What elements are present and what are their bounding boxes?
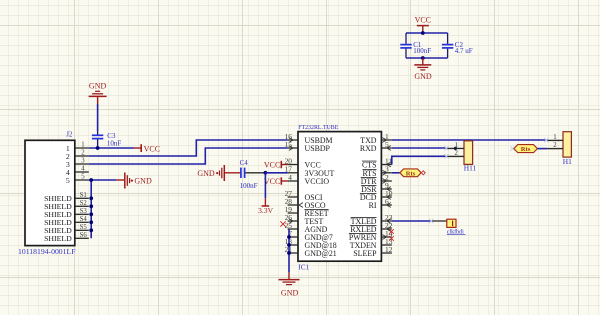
svg-text:GND@21: GND@21: [305, 249, 337, 258]
svg-text:VCC: VCC: [415, 16, 431, 25]
port Rts (at IC1): [400, 169, 425, 178]
svg-text:2: 2: [81, 150, 85, 157]
IC1 pin 18 GND@18: [285, 237, 337, 250]
svg-text:S5: S5: [80, 224, 88, 231]
IC1 pin 2 DTR: [361, 173, 392, 186]
ground GND (top right): [414, 58, 432, 81]
power port 3.3V: [258, 198, 273, 215]
svg-text:2: 2: [553, 142, 557, 149]
IC1 pin 19 RESET: [285, 205, 329, 218]
svg-text:100nF: 100nF: [413, 47, 431, 55]
wire IC1 ground bus AGND/GND pins: [288, 229, 290, 272]
connection marker RXD-H11: [444, 146, 449, 151]
connector J2 body: [25, 140, 75, 245]
node H11 pin1: [454, 147, 457, 150]
node top rail: [421, 31, 425, 35]
node shield pin5: [89, 178, 93, 182]
svg-text:H11: H11: [464, 163, 477, 172]
node GND@21: [287, 251, 291, 255]
wire RTS to port: [392, 172, 400, 174]
svg-text:10nF: 10nF: [107, 139, 122, 147]
IC1 pin 27 OSCI: [285, 189, 323, 202]
svg-text:5: 5: [66, 176, 70, 185]
ERC marker near TEST/AGND: [280, 221, 285, 226]
node shield S2: [89, 204, 93, 208]
svg-text:RI: RI: [369, 201, 377, 210]
IC1 pin 13 TXDEN: [350, 237, 393, 250]
IC1 pin 16 USBDM: [285, 132, 333, 145]
J2 pin 1: [66, 142, 89, 153]
J2 pin 4: [66, 166, 89, 177]
header H11 body: [464, 141, 473, 165]
J2 pin 3: [66, 158, 89, 169]
wire top rail C1-C2: [406, 32, 448, 34]
J2 shield pin S4: [44, 216, 89, 227]
svg-text:4: 4: [81, 166, 85, 173]
IC1 pin 14 PWREN: [349, 229, 393, 242]
node C3 junction: [96, 146, 100, 150]
IC1 pin 17 3V3OUT: [285, 165, 335, 178]
svg-text:GND: GND: [197, 169, 215, 178]
wire J2 pin1 to VCC: [89, 147, 134, 149]
wire J2 pin3 to USBDP: [89, 148, 288, 164]
IC1 pin 4 VCCIO: [288, 173, 330, 186]
svg-text:2: 2: [454, 150, 458, 157]
IC1 pin 22 RXLED: [350, 221, 393, 234]
IC1 pin 23 TXLED: [351, 213, 393, 226]
svg-text:1: 1: [81, 142, 84, 149]
svg-text:GND: GND: [134, 177, 152, 186]
capacitor C1: [400, 33, 411, 58]
svg-text:15: 15: [285, 140, 293, 149]
H1 pin 1: [547, 134, 563, 141]
svg-text:1: 1: [553, 134, 556, 141]
svg-text:3.3V: 3.3V: [258, 206, 273, 215]
IC1 pin 10 DCD: [360, 189, 393, 202]
IC IC1 FT232RL body: [298, 132, 381, 262]
clkfbdi net label: [447, 228, 466, 235]
IC1 pin 21 GND@21: [285, 245, 337, 258]
svg-text:USBDP: USBDP: [305, 144, 331, 153]
svg-text:4: 4: [288, 173, 292, 182]
IC1 pin 5 RXD: [360, 140, 392, 153]
svg-text:S3: S3: [80, 208, 88, 215]
connection marker TXD-H1: [544, 138, 549, 143]
wire port to H1 pin2: [537, 148, 547, 150]
wire shield bus: [90, 180, 92, 238]
svg-text:S6: S6: [80, 232, 88, 239]
wire bottom rail C1-C2: [406, 57, 448, 59]
wire C4 to 3V3OUT pin: [265, 172, 287, 174]
power port VCC (IC1 pin4 VCCIO): [264, 177, 288, 186]
svg-text:100nF: 100nF: [240, 182, 258, 190]
test point clkfbdi: [431, 219, 456, 227]
wire 3V3OUT down to 3.3V port: [264, 173, 266, 198]
svg-text:4.7 uF: 4.7 uF: [455, 47, 473, 55]
capacitor C3: [92, 131, 103, 148]
svg-text:Rts: Rts: [521, 146, 531, 153]
node shield S1: [89, 196, 93, 200]
wire J2 pin5 to GND: [89, 179, 116, 181]
node GND@7: [287, 235, 291, 239]
svg-text:S2: S2: [80, 200, 88, 207]
svg-text:J2: J2: [66, 132, 73, 139]
svg-text:12: 12: [385, 245, 393, 254]
H11 pin 1: [446, 142, 464, 149]
svg-text:IC1: IC1: [299, 263, 310, 271]
H11 pin 2: [446, 150, 464, 157]
J2 shield pin S6: [44, 232, 89, 243]
wire CTS to H11 pin2: [392, 156, 447, 164]
node shield S5: [89, 228, 93, 232]
IC1 pin 12 SLEEP: [353, 245, 392, 258]
svg-text:GND: GND: [281, 289, 299, 298]
capacitor C2: [442, 33, 453, 58]
IC1 pin 7 GND@7: [288, 229, 333, 242]
node bottom rail: [421, 56, 425, 60]
wire RXD to H11 pin1: [392, 147, 447, 149]
J2 shield pin S5: [44, 224, 89, 235]
svg-text:VCC: VCC: [264, 177, 280, 186]
power port VCC (top right): [415, 16, 431, 33]
IC1 pin 20 VCC: [285, 156, 321, 169]
IC1 pin 11 CTS: [362, 156, 392, 169]
J2 shield pin S2: [44, 200, 89, 211]
node shield S3: [89, 212, 93, 216]
svg-text:VCC: VCC: [264, 161, 280, 170]
node 3V3OUT junction: [264, 171, 268, 175]
svg-text:S4: S4: [80, 216, 88, 223]
J2 shield pin S3: [44, 208, 89, 219]
connection marker CTS-H11: [444, 154, 449, 159]
IC1 pin 25 AGND: [285, 221, 328, 234]
wire GND to C3: [97, 104, 99, 131]
svg-text:3: 3: [81, 158, 85, 165]
svg-text:VCCIO: VCCIO: [305, 177, 330, 186]
svg-text:Rts: Rts: [406, 170, 416, 177]
node shield S4: [89, 220, 93, 224]
svg-text:C4: C4: [240, 159, 249, 167]
J2 pin 5: [66, 174, 89, 185]
svg-text:FT232RL.TUBE: FT232RL.TUBE: [298, 124, 338, 131]
svg-text:10118194-0001LF: 10118194-0001LF: [18, 247, 76, 256]
header H1 body: [563, 132, 571, 157]
power port GND (J2 pin5): [116, 173, 152, 189]
J2 pin 2: [66, 150, 89, 161]
wire J2 pin2 to USBDM: [89, 140, 288, 156]
wire TXD to H1 pin1: [392, 139, 548, 141]
H1 pin 2: [547, 142, 563, 149]
IC1 pin 15 USBDP: [285, 140, 331, 153]
ground GND (above C3, inverted): [89, 81, 107, 104]
IC1 pin 1 TXD: [360, 132, 392, 145]
power port VCC (J2 pin1): [134, 144, 160, 153]
svg-text:VCC: VCC: [144, 144, 160, 153]
IC1 pin 26 TEST: [285, 213, 324, 226]
wire TXLED to clkfbdi: [392, 220, 431, 222]
svg-text:S1: S1: [80, 192, 87, 199]
power port GND (C4): [197, 165, 240, 181]
IC1 pin 9 DSR: [361, 181, 392, 194]
svg-text:GND: GND: [89, 81, 107, 90]
IC1 pin 6 RI: [369, 197, 392, 210]
ERC marker near PWREN: [389, 236, 394, 241]
svg-text:GND: GND: [414, 72, 432, 81]
svg-text:5: 5: [81, 174, 85, 181]
connection marker TXLED wire: [429, 219, 433, 223]
svg-text:RXD: RXD: [360, 144, 377, 153]
capacitor C4: [241, 168, 266, 178]
IC1 pin 3 RTS: [363, 165, 392, 178]
node GND@18: [287, 243, 291, 247]
J2 shield pin S1: [44, 192, 89, 203]
svg-text:SHIELD: SHIELD: [44, 234, 72, 243]
ground GND (below IC1): [279, 272, 300, 297]
svg-text:H1: H1: [563, 157, 572, 166]
connection marker port-H1: [510, 146, 514, 150]
power port VCC (IC1 pin20): [264, 161, 288, 170]
ERC marker near RXLED: [389, 229, 394, 234]
svg-text:SLEEP: SLEEP: [353, 249, 377, 258]
port Rts (at H1): [514, 145, 538, 154]
IC1 pin 28 OSCO: [285, 197, 326, 210]
